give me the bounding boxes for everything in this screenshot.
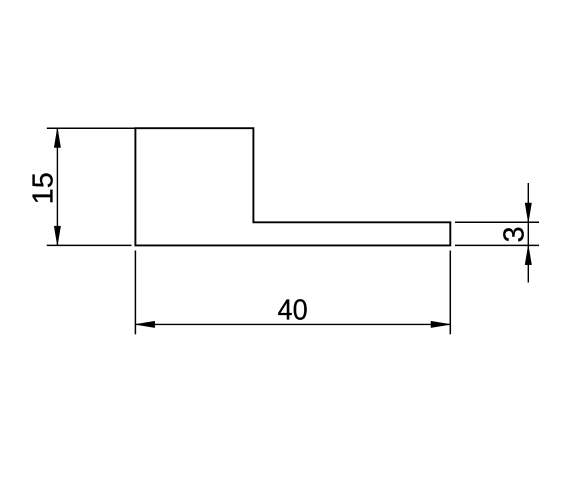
dim3 extension line bottom [455,244,539,246]
dim3 extension line top [455,221,539,223]
dim3 arrow down (above) [525,203,531,222]
dim40 arrow left [135,321,154,327]
dim3 arrow up (below) [525,245,531,264]
dim40 extension line right [449,251,451,335]
dim15 arrow down [54,226,60,245]
dim40 arrow right [431,321,450,327]
dim15 extension line top [47,127,135,129]
svg-text:15: 15 [27,172,59,204]
L-profile outline [135,128,450,245]
dim15 extension line bottom [47,244,132,246]
dim40 extension line left [134,251,136,335]
dim15 dimension line [56,128,58,245]
dim3 dimension line [527,183,529,283]
svg-text:3: 3 [499,226,531,242]
dim15 arrow up [54,128,60,147]
dim40 dimension line [135,323,450,325]
svg-text:40: 40 [278,294,308,326]
